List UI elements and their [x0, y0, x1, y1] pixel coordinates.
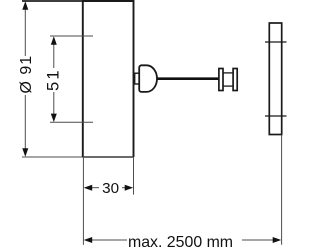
arrow down Ø91 [22, 148, 28, 157]
plate crossbar top [265, 41, 287, 43]
rod [157, 77, 219, 80]
extension line left (30 / max) [82, 157, 84, 245]
connector middle [222, 73, 234, 86]
dimension line 30 [90, 187, 99, 189]
arrow right max [273, 237, 282, 243]
extension line bottom (Ø91) [22, 156, 83, 158]
drop line from plate [281, 135, 283, 245]
arrow left 30 [84, 185, 93, 191]
dimension line Ø91 [24, 8, 26, 56]
body bottom edge [83, 156, 134, 158]
arrow up Ø91 [22, 1, 28, 10]
extension line bottom (51) [50, 121, 93, 123]
arrow left max [84, 237, 93, 243]
extension line top (51) [50, 35, 93, 37]
svg-text:30: 30 [102, 180, 119, 197]
arrow up 51 [51, 36, 57, 45]
svg-text:max. 2500 mm: max. 2500 mm [128, 234, 233, 250]
svg-text:Ø 91: Ø 91 [18, 55, 35, 94]
plate crossbar bottom [265, 115, 287, 117]
wall plate [269, 23, 281, 135]
svg-text:51: 51 [45, 68, 63, 91]
arrow down 51 [51, 114, 57, 123]
arrow right 30 [125, 185, 134, 191]
extension line top (Ø91) [22, 0, 84, 2]
connector bar left [219, 69, 223, 91]
extension line right (30) [133, 157, 135, 195]
main body rectangle [83, 1, 134, 157]
connector bar right [233, 69, 237, 91]
dimension line max [90, 239, 127, 241]
swivel joint (D-shape) [139, 65, 157, 92]
dimension line 51 [53, 43, 55, 68]
mounting tab [135, 73, 140, 84]
